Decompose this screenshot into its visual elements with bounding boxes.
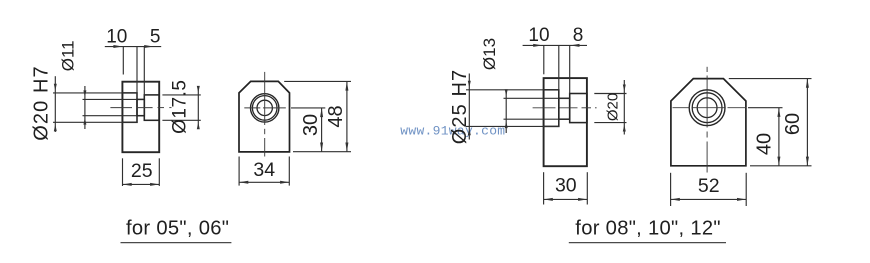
ext line 34 right	[288, 157, 290, 186]
dim line Ø11	[84, 86, 86, 129]
ext line 25 right	[158, 158, 160, 186]
right side view centerline seg2	[560, 107, 578, 109]
dim line Ø13	[505, 91, 507, 133]
left front circle Ø20	[251, 94, 279, 122]
right side view body outline	[544, 78, 587, 166]
left side view centerline seg2	[137, 107, 153, 109]
dimension line 10/8 right part	[523, 44, 587, 46]
arrow 52 left	[671, 198, 680, 201]
svg-text:40: 40	[754, 133, 776, 155]
arrow 30 bottom	[320, 143, 323, 152]
svg-text:30: 30	[555, 175, 577, 197]
ext line Ø20 top right	[594, 93, 626, 95]
ext line 30 right	[586, 172, 588, 204]
right front horizontal centerline seg3	[728, 107, 747, 109]
ext line 60 bottom	[750, 165, 812, 167]
arrow Ø25 top	[468, 81, 471, 88]
ext line Ø20 bottom right	[594, 122, 626, 124]
arrow Ø20 bottom	[54, 124, 57, 131]
caption underline right	[569, 242, 726, 244]
svg-text:5: 5	[150, 26, 161, 47]
ext line 60 top	[729, 78, 812, 80]
left front vertical centerline seg2	[264, 129, 266, 134]
svg-text:Ø11: Ø11	[59, 40, 78, 71]
svg-text:10: 10	[106, 26, 127, 47]
arrow outward at step2	[144, 45, 153, 48]
svg-text:Ø20 H7: Ø20 H7	[30, 65, 52, 141]
arrow 25 left	[123, 183, 132, 186]
extension line step1 right	[558, 45, 560, 90]
ext line Ø20 bottom	[53, 121, 137, 123]
svg-text:for 05", 06": for 05", 06"	[126, 217, 229, 239]
ext line 40 top	[748, 107, 783, 109]
right front horizontal centerline seg1	[673, 107, 690, 109]
arrow 60 top	[806, 79, 809, 88]
right side view centerline seg3	[582, 107, 592, 109]
arrow Ø20 bottom right	[623, 125, 626, 132]
dim line 30	[321, 108, 323, 152]
svg-text:10: 10	[528, 25, 549, 46]
arrow 60 bottom	[806, 157, 809, 166]
ext line 30 left	[543, 172, 545, 204]
left front horizontal centerline seg2	[263, 107, 286, 109]
left side view bore Ø11 box	[137, 99, 144, 115]
ext line Ø13 bottom	[504, 118, 570, 120]
ext line 48 bottom	[293, 151, 351, 153]
dim line Ø25 H7	[468, 74, 470, 140]
left side view centerline seg3	[158, 107, 165, 109]
ext line Ø17.5 bottom	[162, 119, 200, 121]
right front circle Ø25	[689, 90, 725, 126]
arrow Ø11 top	[83, 90, 86, 97]
right front vertical centerline seg2	[706, 132, 708, 138]
arrow Ø20 top right	[623, 85, 626, 92]
caption underline left	[121, 242, 232, 244]
ext line Ø17.5 top	[162, 94, 200, 96]
ext line Ø20 top	[53, 92, 137, 94]
svg-text:34: 34	[253, 159, 275, 181]
right front view outline	[671, 79, 746, 166]
right front horizontal centerline seg2	[693, 107, 725, 109]
left side view bore Ø20 box	[122, 93, 137, 122]
svg-text:30: 30	[300, 114, 322, 136]
left front vertical centerline seg1	[264, 72, 266, 125]
ext line Ø11 top	[83, 98, 138, 100]
extension line step1	[136, 47, 138, 94]
dim line Ø20 H7	[54, 76, 56, 132]
arrow Ø20 top	[54, 84, 57, 91]
ext line 52 right	[745, 173, 747, 206]
arrow 30 top	[320, 108, 323, 117]
arrow Ø13 bottom	[505, 121, 508, 128]
right side view centerline seg1	[533, 107, 556, 109]
left side view centerline seg1	[110, 107, 132, 109]
dim line 48	[346, 81, 348, 151]
extension line left face	[122, 47, 124, 75]
arrow 25 right	[150, 183, 159, 186]
left front horizontal centerline seg1	[244, 107, 260, 109]
left front view outline	[239, 81, 290, 151]
arrow Ø13 top	[505, 89, 508, 96]
ext line 48 top	[284, 80, 351, 82]
arrow 40 top	[777, 108, 780, 117]
ext line 30 top	[291, 107, 325, 109]
arrow 34 left	[239, 181, 248, 184]
svg-text:Ø17.5: Ø17.5	[169, 80, 190, 134]
dim line 40	[778, 108, 780, 166]
extension line step2 right	[569, 45, 571, 94]
dim line 52	[671, 198, 747, 200]
svg-text:60: 60	[782, 113, 804, 135]
left front circle Ø17.5	[252, 96, 277, 121]
dim line 34	[239, 181, 289, 183]
arrow 40 bottom	[777, 157, 780, 166]
svg-text:25: 25	[131, 160, 153, 182]
svg-text:Ø20: Ø20	[604, 93, 621, 121]
arrow 48 top	[345, 81, 348, 90]
right side view bore Ø13 box	[559, 98, 570, 119]
left front circle Ø11	[257, 100, 272, 115]
arrow 30 right bottom	[578, 198, 587, 201]
right side view centerline dot	[595, 107, 597, 109]
extension line left face right	[543, 45, 545, 74]
arrow 48 bottom	[345, 143, 348, 152]
arrow Ø17.5 top	[197, 86, 200, 93]
right front vertical centerline seg0	[706, 67, 708, 72]
ext line 25 left	[122, 158, 124, 186]
arrow Ø25 bottom	[468, 129, 471, 136]
right front vertical centerline seg3	[706, 142, 708, 173]
left side view centerline dot	[169, 107, 171, 109]
right side view bore Ø25 box	[544, 90, 559, 127]
ext line 34 left	[238, 157, 240, 186]
arrow 52 right	[737, 198, 746, 201]
right front vertical centerline seg1	[706, 76, 708, 128]
arrow at left face	[113, 45, 122, 48]
arrow at left face right part	[533, 44, 542, 47]
svg-text:52: 52	[698, 175, 720, 197]
dim line 60	[806, 79, 808, 166]
right front circle Ø13	[697, 98, 717, 118]
left front vertical centerline seg3	[264, 138, 266, 157]
ext line Ø25 bottom	[466, 125, 559, 127]
svg-text:8: 8	[573, 25, 584, 46]
svg-text:48: 48	[325, 105, 347, 127]
left side view body outline	[122, 82, 159, 153]
arrow 30 left bottom	[544, 198, 553, 201]
ext line Ø13 top	[504, 97, 570, 99]
dim line 30 bottom	[544, 198, 588, 200]
arrow 34 right	[280, 181, 289, 184]
dimension line 10/5 left part	[105, 46, 161, 48]
svg-text:Ø25 H7: Ø25 H7	[449, 69, 471, 145]
extension line step2	[143, 47, 145, 96]
svg-text:Ø13: Ø13	[480, 38, 499, 70]
ext line Ø25 top	[466, 89, 559, 91]
arrow Ø11 bottom	[83, 118, 86, 125]
right front circle Ø20	[692, 93, 722, 123]
ext line 52 left	[670, 173, 672, 206]
arrow Ø17.5 bottom	[197, 122, 200, 129]
right side view bore Ø20 box	[570, 94, 587, 123]
arrow at step right part	[570, 44, 579, 47]
dim line 25	[123, 183, 160, 185]
left side view bore Ø17.5 box	[144, 95, 159, 120]
svg-text:for 08", 10", 12": for 08", 10", 12"	[575, 217, 721, 239]
dim line Ø17.5	[197, 86, 199, 129]
dim line Ø20 right	[623, 80, 625, 135]
ext line Ø11 bottom	[83, 115, 138, 117]
